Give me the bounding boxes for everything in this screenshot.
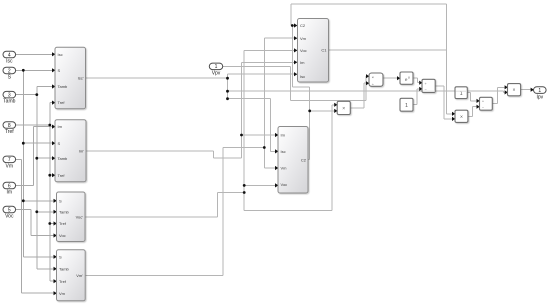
arrowhead B1.Tamb (52, 84, 55, 88)
svg-text:Tref: Tref (59, 221, 67, 226)
arrowhead outport Ipv (531, 88, 534, 92)
sum sub1 (422, 79, 435, 92)
wire sub1 out to prod2 (435, 85, 444, 87)
junction C1.C2 input node (291, 24, 294, 27)
wire const1b out to sub2 (467, 92, 470, 94)
wire prod3 out to Ipv port (521, 89, 531, 91)
svg-text:Vm: Vm (281, 166, 288, 171)
svg-text:Ipv: Ipv (536, 94, 543, 100)
svg-text:Im: Im (300, 60, 305, 65)
svg-text:7: 7 (8, 157, 11, 163)
wire faint pass behind sub1 (423, 90, 436, 92)
product xblk C2*Voc' (337, 101, 350, 114)
wire C2 output loop (308, 159, 310, 161)
arrowhead product2 in2 (452, 117, 455, 121)
junction Isc' net main (226, 77, 229, 80)
arrowhead product3 in1 (505, 85, 508, 89)
svg-text:S: S (58, 141, 61, 146)
svg-text:Tref: Tref (5, 129, 14, 135)
svg-text:Tamb: Tamb (59, 266, 70, 271)
svg-text:×: × (460, 114, 463, 120)
arrowhead C1.Isc (294, 72, 297, 76)
svg-text:Voc: Voc (281, 182, 288, 187)
arrowhead divide denominator (366, 81, 369, 85)
svg-text:Tref: Tref (58, 173, 66, 178)
svg-text:4: 4 (8, 52, 11, 58)
wire S net (16, 69, 52, 71)
junction C2 net to product (308, 110, 311, 113)
svg-text:u: u (408, 76, 410, 80)
arrowhead B1.Tref (52, 101, 55, 105)
subsystem B2 Im' (55, 120, 86, 182)
wire Isc' net (86, 77, 228, 79)
wire C1 output and top loop (328, 49, 446, 51)
arrowhead B4.Tamb (54, 267, 57, 271)
svg-text:Voc: Voc (300, 48, 307, 53)
subsystem B1 Isc' (55, 47, 86, 108)
svg-text:Tamb: Tamb (59, 209, 70, 214)
inport 2 S (3, 67, 16, 74)
junction Tamb net at B2.Tamb (35, 157, 38, 160)
sum sub2 (480, 97, 493, 110)
svg-text:Im: Im (281, 133, 286, 138)
outport 1 Ipv (534, 87, 547, 94)
arrowhead sum1 minus (419, 87, 422, 91)
wire const1 out to sub1 (413, 104, 417, 106)
junction Vm' net (263, 146, 266, 149)
svg-text:Vm: Vm (300, 36, 307, 41)
junction Isc' net to C2.Isc (226, 97, 229, 100)
svg-text:2: 2 (8, 68, 11, 74)
wire faint pass behind const 1 (456, 90, 468, 92)
svg-text:S: S (59, 198, 62, 203)
arrowhead C2.Isc (275, 149, 278, 153)
inport 1 Vpv (209, 63, 222, 70)
wire Voc' net (85, 216, 218, 218)
svg-text:Im': Im' (79, 148, 84, 153)
arrowhead sum2 minus (477, 105, 480, 109)
arrowhead B2.Tref (52, 173, 55, 177)
wire Im' net (86, 150, 213, 152)
junction Im' net at C2.Im (240, 134, 243, 137)
arrowhead C2.Voc (275, 183, 278, 187)
arrowhead C2.Im (275, 133, 278, 137)
svg-text:Tamb: Tamb (58, 84, 69, 89)
arrowhead C1.Voc (294, 48, 297, 52)
wire Im port6 to B2 (16, 185, 34, 187)
arrowhead sum2 plus (477, 99, 480, 103)
arrowhead B4.S (54, 255, 57, 259)
junction Tamb net at B3.Tamb (35, 210, 38, 213)
wire divide out to eu (383, 77, 397, 79)
arrowhead product C2 input (334, 109, 337, 113)
product prod2 (455, 110, 468, 122)
svg-text:6: 6 (8, 183, 11, 189)
arrowhead B2.Im (52, 125, 55, 129)
subsystem C1 (298, 19, 329, 83)
wire Vpv net (223, 65, 291, 67)
arrowhead product2 in1 (452, 112, 455, 116)
arrowhead sum1 plus (419, 81, 422, 85)
svg-text:×: × (513, 88, 516, 94)
svg-text:Tamb: Tamb (3, 99, 15, 105)
arrowhead product3 in2 (505, 90, 508, 94)
math function e^u (400, 72, 413, 84)
wire prod2 out to sub2 (468, 115, 473, 117)
svg-text:1: 1 (405, 103, 408, 109)
arrowhead product Voc input (334, 103, 337, 107)
svg-text:Vm': Vm' (76, 273, 83, 278)
subsystem C2 (278, 127, 308, 194)
junction S net at B1.S (22, 69, 25, 72)
subsystem B4 Vm' (57, 250, 86, 301)
svg-text:Vm: Vm (6, 163, 14, 169)
wire Vm' net (85, 275, 223, 277)
wire Tamb net (16, 94, 37, 96)
divide block (369, 73, 383, 86)
svg-text:S: S (8, 75, 12, 81)
svg-text:Tamb: Tamb (58, 156, 69, 161)
arrowhead B1.Isc (52, 52, 55, 56)
junction S net at B3.S (22, 199, 25, 202)
svg-text:Isc': Isc' (78, 76, 84, 81)
junction Voc' net main (243, 191, 246, 194)
arrowhead B3.Tref (54, 221, 57, 225)
subsystem B3 Voc' (57, 192, 86, 242)
arrowhead C1.C2 (294, 23, 297, 27)
wire Vm port7 to B4 (16, 158, 22, 160)
svg-text:C1: C1 (321, 48, 327, 53)
arrowhead B4.Tref (54, 279, 57, 283)
svg-text:Voc: Voc (59, 233, 66, 238)
svg-text:1: 1 (460, 91, 463, 97)
svg-text:Tref: Tref (59, 279, 67, 284)
wire xblk out to divide (350, 107, 364, 109)
arrowhead B2.S (52, 141, 55, 145)
svg-text:C2: C2 (300, 23, 306, 28)
wire sub2 out to prod3 (492, 103, 497, 105)
product prod3 (508, 84, 521, 96)
inport 8 Tref (3, 122, 16, 129)
svg-text:3: 3 (8, 93, 11, 99)
svg-text:C2: C2 (301, 157, 307, 162)
junction Tref net at port 8 (48, 124, 51, 127)
svg-text:1: 1 (215, 64, 218, 70)
inport 7 Vm (3, 156, 16, 163)
arrowhead C2.Vm (275, 166, 278, 170)
svg-text:S: S (59, 254, 62, 259)
junction Tamb net at port 3 (35, 93, 38, 96)
junction Voc' net at C2.Voc (243, 184, 246, 187)
wire eu out to sub1 (413, 77, 418, 79)
svg-text:Isc: Isc (6, 59, 13, 65)
wire Isc port4 to B1 (16, 53, 52, 55)
svg-text:Isc: Isc (281, 149, 286, 154)
arrowhead divide numerator (366, 74, 369, 78)
svg-text:Im: Im (7, 190, 13, 196)
arrowhead C1.Im (294, 60, 297, 64)
wire Voc port5 to B3 (16, 209, 31, 211)
svg-text:Tref: Tref (58, 100, 66, 105)
inport 4 Isc (3, 51, 16, 58)
svg-text:Voc: Voc (5, 214, 14, 220)
svg-text:Voc': Voc' (76, 214, 84, 219)
arrowhead C1.Vm (294, 36, 297, 40)
svg-text:5: 5 (8, 207, 11, 213)
junction Tref net at B3.Tref (48, 222, 51, 225)
junction S net at B2.S (22, 142, 25, 145)
svg-text:Vm: Vm (59, 291, 66, 296)
svg-text:S: S (58, 68, 61, 73)
svg-text:Vpv: Vpv (212, 70, 221, 76)
svg-text:1: 1 (538, 88, 541, 94)
arrowhead B2.Tamb (52, 156, 55, 160)
svg-text:8: 8 (8, 123, 11, 129)
arrowhead B1.S (52, 68, 55, 72)
svg-text:Isc: Isc (58, 52, 63, 57)
arrowhead B3.Voc (54, 233, 57, 237)
junction Tref net at B2.Tref (48, 174, 51, 177)
wire Tref net (16, 124, 50, 126)
svg-text:Isc: Isc (300, 74, 305, 79)
arrowhead B3.S (54, 199, 57, 203)
junction Isc' net to product (226, 90, 229, 93)
arrowhead B3.Tamb (54, 210, 57, 214)
inport 3 Tamb (3, 91, 16, 98)
svg-text:Im: Im (58, 124, 63, 129)
inport 6 Im (3, 182, 16, 189)
inport 5 Voc (3, 206, 16, 213)
constant 1 (lower) (400, 98, 413, 111)
arrowhead exp input (397, 76, 400, 80)
constant 1 (right) (455, 87, 467, 99)
svg-text:×: × (342, 106, 345, 112)
arrowhead B4.Vm (54, 291, 57, 295)
